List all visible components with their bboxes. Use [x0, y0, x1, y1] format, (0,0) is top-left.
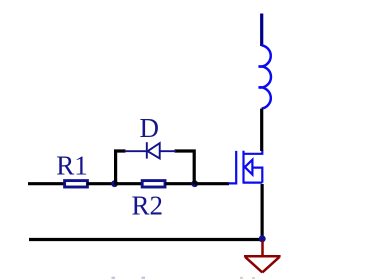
wire	[195, 182, 229, 185]
node (ground junction)	[259, 235, 266, 242]
wire	[260, 109, 263, 151]
ground	[244, 241, 281, 272]
node (junction left)	[111, 180, 118, 187]
resistor R2	[142, 181, 165, 187]
wire	[261, 184, 264, 240]
wire	[115, 182, 143, 185]
wire	[28, 182, 65, 185]
wire	[175, 151, 195, 185]
wire	[29, 238, 263, 241]
wire	[116, 151, 126, 185]
inductor L1	[260, 14, 263, 47]
svg-text:R1: R1	[56, 151, 88, 181]
wire	[165, 182, 195, 185]
transistor Q1 (N-channel MOSFET)	[229, 150, 263, 183]
resistor R1	[65, 181, 88, 187]
node (junction right)	[191, 180, 198, 187]
svg-text:R2: R2	[132, 191, 164, 221]
wire	[87, 182, 115, 185]
diode D	[125, 142, 177, 158]
svg-text:D: D	[140, 113, 160, 143]
